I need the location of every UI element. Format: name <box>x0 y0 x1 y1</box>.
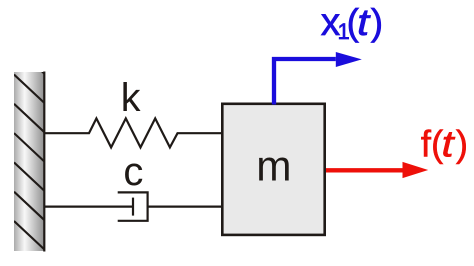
displacement arrow head <box>336 52 362 67</box>
wall hatching <box>14 45 45 250</box>
displacement arrow x1(t) shaft (blue L-shaped) <box>274 59 336 105</box>
svg-text:): ) <box>371 2 383 43</box>
spring k (zigzag with leads) <box>45 118 222 147</box>
wall right edge line <box>43 72 45 252</box>
svg-text:k: k <box>121 76 141 120</box>
mass block m <box>222 104 324 235</box>
svg-text:t: t <box>357 2 371 43</box>
damper rod right <box>148 206 222 208</box>
damper piston plate <box>132 198 134 216</box>
force arrow head <box>403 162 429 178</box>
damper rod left <box>45 206 133 208</box>
svg-text:): ) <box>456 124 468 165</box>
force arrow f(t) shaft (red) <box>326 168 403 172</box>
wall (fixed support) <box>14 72 44 251</box>
svg-text:c: c <box>123 150 143 194</box>
label x1(t) <box>321 1 383 44</box>
damper cylinder (open left cup) <box>118 192 148 220</box>
svg-text:m: m <box>256 143 291 190</box>
label f(t) <box>421 124 468 165</box>
svg-text:t: t <box>441 124 455 165</box>
